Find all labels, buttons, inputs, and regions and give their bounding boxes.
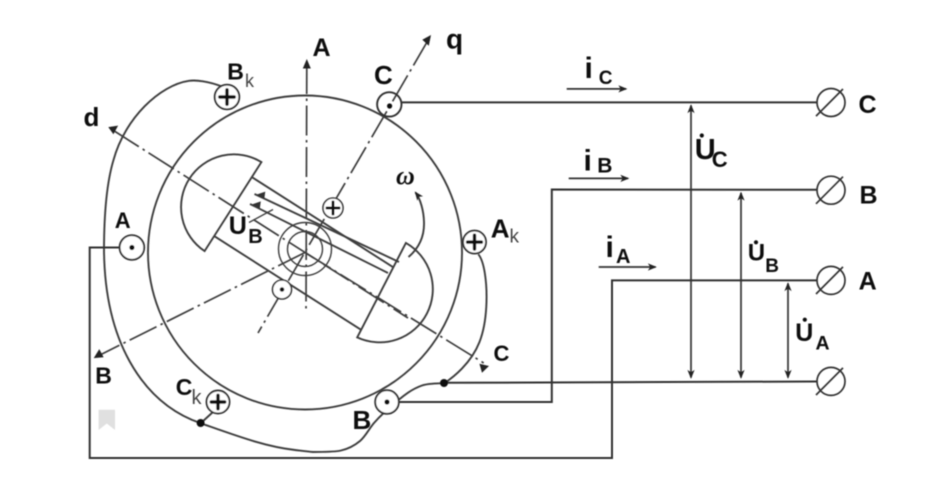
svg-text:k: k bbox=[192, 387, 203, 409]
svg-text:B: B bbox=[765, 256, 779, 277]
svg-text:A: A bbox=[616, 246, 630, 268]
svg-text:C: C bbox=[176, 374, 193, 400]
svg-text:C: C bbox=[599, 68, 613, 89]
svg-text:A: A bbox=[313, 34, 331, 62]
svg-text:B: B bbox=[227, 59, 244, 85]
svg-text:A: A bbox=[115, 208, 131, 233]
svg-text:B: B bbox=[353, 405, 372, 435]
svg-text:i: i bbox=[585, 52, 593, 85]
svg-text:B: B bbox=[248, 226, 262, 248]
svg-text:i: i bbox=[584, 145, 592, 178]
svg-text:B: B bbox=[860, 182, 878, 210]
svg-text:k: k bbox=[510, 226, 520, 247]
svg-text:i: i bbox=[606, 231, 614, 264]
svg-text:U: U bbox=[795, 319, 813, 347]
svg-text:q: q bbox=[446, 24, 463, 55]
svg-text:C: C bbox=[494, 341, 510, 366]
svg-text:C: C bbox=[859, 91, 877, 119]
svg-text:C: C bbox=[712, 147, 728, 172]
svg-text:A: A bbox=[859, 267, 877, 295]
svg-text:B: B bbox=[95, 363, 112, 389]
svg-text:A: A bbox=[491, 214, 510, 244]
svg-text:k: k bbox=[245, 71, 255, 91]
svg-text:A: A bbox=[816, 333, 830, 355]
svg-text:B: B bbox=[597, 155, 612, 178]
svg-text:U: U bbox=[229, 212, 247, 240]
svg-text:C: C bbox=[374, 60, 393, 90]
svg-text:d: d bbox=[84, 102, 100, 132]
svg-text:ω: ω bbox=[396, 161, 415, 190]
